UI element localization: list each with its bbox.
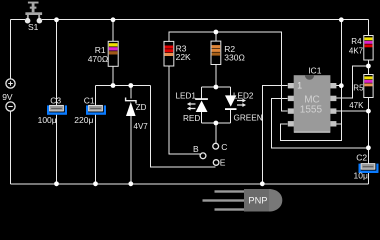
- node dot LED bottom: [214, 121, 219, 126]
- node dot R1 node A: [111, 83, 116, 88]
- svg-text:E: E: [220, 158, 226, 168]
- wire LED loop top bar: [202, 86, 231, 88]
- wire top rail left of switch: [11, 19, 26, 21]
- wire battery bottom: [10, 111, 12, 184]
- wire C1 top: [95, 86, 97, 106]
- wire LED2 leads: [230, 87, 232, 123]
- op-amp IC1 MC1555: [288, 66, 337, 133]
- svg-text:22K: 22K: [176, 52, 191, 62]
- wire pin7 to R4 R5 junction: [336, 66, 368, 98]
- node dot C3 top rail: [54, 17, 59, 22]
- wire C2 bottom: [367, 173, 369, 184]
- node dot C1 ground: [93, 181, 98, 186]
- LED1 red: [176, 91, 208, 123]
- resistor R1 470 ohm: [88, 41, 119, 66]
- wire ZD bottom: [130, 116, 132, 184]
- svg-text:100μ: 100μ: [38, 115, 57, 125]
- LED2 green: [225, 91, 263, 122]
- wire ground rail: [11, 183, 369, 185]
- battery B1 9V: [2, 79, 15, 111]
- svg-text:47K: 47K: [349, 101, 364, 110]
- wire pin8 stub: [336, 85, 341, 87]
- svg-text:C2: C2: [356, 152, 367, 162]
- capacitor C2: [354, 152, 379, 180]
- node dot R2 rail2: [214, 30, 219, 35]
- wire pin1 to ground: [262, 86, 287, 184]
- wire R1 bottom: [112, 66, 114, 85]
- svg-text:4K7: 4K7: [349, 46, 364, 55]
- wire pin4 loop to pin5 and Vcc vertical: [280, 20, 341, 141]
- svg-text:B: B: [193, 144, 199, 154]
- svg-text:4V7: 4V7: [134, 122, 149, 131]
- node dot pin6 node: [366, 109, 371, 114]
- switch S1: [25, 2, 42, 33]
- capacitor C1: [74, 95, 106, 125]
- svg-text:220μ: 220μ: [74, 115, 93, 125]
- svg-text:C1: C1: [84, 95, 95, 105]
- wire ZD top: [130, 86, 132, 99]
- wire R2 top tap: [215, 32, 217, 41]
- node C terminal: [213, 142, 228, 152]
- wire R4 bottom to R5: [367, 60, 369, 75]
- resistor R2 330 ohm: [211, 41, 245, 64]
- wire LED loop bottom bar: [202, 122, 231, 124]
- svg-text:C: C: [221, 142, 227, 152]
- svg-text:C3: C3: [50, 95, 61, 105]
- transistor PNP package: [203, 189, 283, 212]
- zener diode ZD 4V7: [126, 98, 149, 131]
- wire C1 bottom: [95, 114, 97, 184]
- svg-text:R4: R4: [351, 37, 362, 46]
- svg-text:RED: RED: [183, 114, 200, 123]
- svg-text:LED2: LED2: [233, 91, 254, 100]
- wire rail2 R3 R2 to pin3: [169, 32, 288, 111]
- svg-text:1: 1: [297, 81, 302, 91]
- node dot ZD ground: [128, 181, 133, 186]
- wire battery top: [10, 20, 12, 79]
- node dot Vcc top rail: [339, 17, 344, 22]
- svg-text:ZD: ZD: [136, 103, 147, 112]
- wire R1 top: [112, 20, 114, 42]
- node dot ZD node A: [128, 83, 133, 88]
- node dot R1 top rail: [111, 17, 116, 22]
- svg-text:470Ω: 470Ω: [88, 54, 109, 64]
- node E terminal: [213, 158, 225, 168]
- resistor R4 4K7: [349, 36, 373, 61]
- node dot pin1 ground: [260, 181, 265, 186]
- svg-text:GREEN: GREEN: [234, 114, 263, 123]
- wire pin2 to C2 node: [272, 98, 369, 147]
- svg-text:IC1: IC1: [308, 66, 322, 76]
- wire pin6 to R5 bottom node: [336, 110, 368, 112]
- wire LED1 leads: [201, 87, 203, 123]
- svg-text:PNP: PNP: [248, 196, 267, 206]
- wire R3 bottom to B: [169, 66, 200, 154]
- node dot LED top: [214, 85, 219, 90]
- node dot pin8: [339, 83, 344, 88]
- wire R2 bottom: [215, 65, 217, 88]
- svg-text:S1: S1: [28, 22, 39, 32]
- node dot pin2 C2 node: [366, 145, 371, 150]
- svg-text:330Ω: 330Ω: [224, 52, 245, 62]
- wire R4 top from rail: [367, 20, 369, 36]
- wire pin5 stub: [336, 123, 341, 125]
- svg-text:9V: 9V: [2, 92, 13, 102]
- wire C terminal: [215, 123, 217, 143]
- node B terminal: [193, 144, 206, 159]
- wire C3 bottom: [56, 114, 58, 184]
- wire R5 bottom to C2: [367, 98, 369, 164]
- svg-text:1555: 1555: [300, 105, 323, 116]
- capacitor C3: [38, 95, 67, 125]
- wire C3 top: [56, 20, 58, 106]
- svg-text:10μ: 10μ: [354, 171, 368, 181]
- wire node A horizontal: [96, 85, 151, 87]
- resistor R5 47K: [349, 75, 373, 111]
- node dot R4 R5 junction: [366, 64, 371, 69]
- svg-text:R5: R5: [353, 84, 364, 93]
- node dot C3 ground: [54, 181, 59, 186]
- wire top rail right of switch: [42, 19, 368, 21]
- resistor R3 22K: [164, 41, 191, 66]
- wire E vertical and horizontal: [151, 86, 216, 168]
- svg-text:LED1: LED1: [176, 91, 197, 100]
